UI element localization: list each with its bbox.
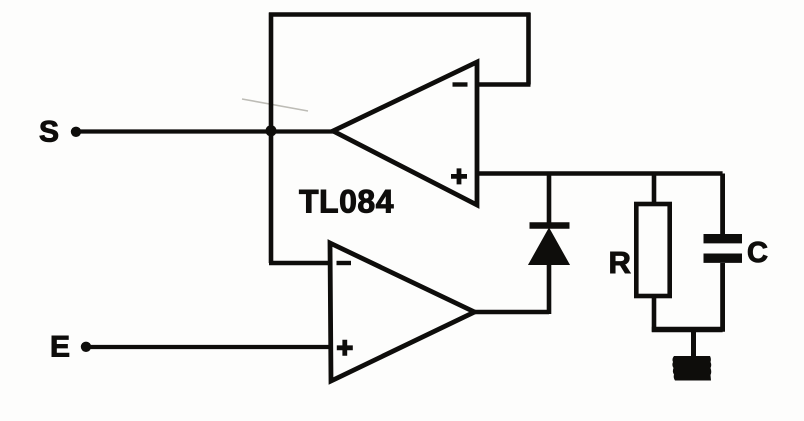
wire: diode cathode up to node rail — [547, 174, 552, 226]
op-amp U1A (left-pointing triangle) — [333, 62, 477, 205]
wire: node rail from U1A non-inverting input to C branch — [477, 171, 723, 176]
wire: horizontal into U1B inverting input — [269, 261, 331, 265]
wire: S input line — [76, 129, 334, 133]
wire: ground stub — [691, 330, 696, 358]
wire: R bottom stub — [652, 296, 657, 332]
terminal E dot — [81, 342, 91, 352]
wire: C top stub — [720, 174, 725, 235]
svg-text:R: R — [609, 245, 631, 280]
terminal S dot — [71, 127, 81, 137]
wire: R top stub — [652, 174, 657, 205]
wire: left vertical bus from top wire down to U1B inverting input — [269, 13, 274, 264]
wire: E input line — [86, 345, 332, 349]
capacitor C bottom plate — [704, 254, 743, 263]
wire: U1B output horizontal — [474, 310, 549, 314]
U1B minus marker — [337, 261, 352, 265]
capacitor C top plate — [704, 234, 743, 243]
svg-text:S: S — [39, 116, 59, 149]
wire: C bottom stub — [720, 263, 725, 332]
diode D1 triangle (anode bottom, pointing up) — [531, 231, 568, 264]
wire: U1B output up to diode anode — [547, 261, 552, 314]
faint scan scratch — [242, 99, 308, 111]
node junction dot — [265, 125, 276, 136]
wire: feedback right vertical — [526, 13, 531, 85]
ground symbol (solid block) — [672, 356, 711, 381]
U1B plus marker — [337, 340, 353, 356]
svg-text:E: E — [50, 331, 70, 364]
svg-text:TL084: TL084 — [299, 184, 394, 220]
wire: top feedback horizontal — [269, 12, 531, 17]
resistor R body — [636, 204, 669, 296]
wire: feedback into inverting input of U1A — [478, 82, 531, 86]
op-amp U1B (right-pointing triangle) — [330, 243, 475, 381]
svg-text:C: C — [747, 237, 768, 269]
wire: bottom rail — [652, 327, 723, 332]
U1A minus marker — [453, 82, 468, 86]
U1A plus marker — [451, 168, 467, 184]
diode D1 cathode bar — [530, 222, 570, 228]
